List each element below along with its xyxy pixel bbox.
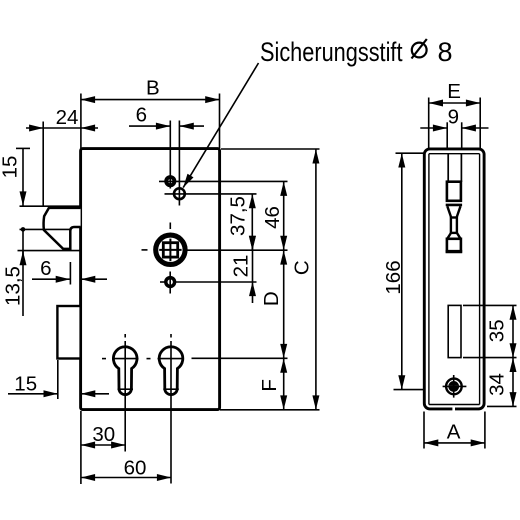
side view inner right wall [479,154,481,405]
B extension left [80,94,82,149]
30/60 extension left [80,411,82,484]
svg-text:37,5: 37,5 [227,196,250,236]
diameter symbol [412,39,427,59]
svg-text:A: A [447,420,461,443]
35/34 extension middle [463,357,517,359]
9 extension left [446,122,448,149]
dimension 13,5 [22,229,24,316]
safety pin extension vertical [178,121,180,206]
dimension E [429,102,480,104]
follower stack lower taper [447,233,460,239]
svg-text:166: 166 [382,260,405,294]
keyhole K1 top dash [124,334,126,338]
dimension A [424,442,485,444]
svg-text:9: 9 [448,105,459,128]
follower cross vertical [169,239,171,262]
screw crosshair vertical [453,375,455,398]
channel wall right [460,154,462,182]
keyhole K2 centre extension to right [192,357,288,359]
follower stack narrow box [451,218,457,233]
dimension 15 upper [22,149,24,206]
A extension right [484,412,486,449]
svg-text:35: 35 [486,319,509,342]
body top extension to right [221,148,320,150]
lock body plate [81,149,220,410]
keyhole K1 left dash [102,358,106,360]
24 extension line [42,122,44,207]
dimension 15 lower [8,393,58,395]
keyhole K2 cross horizontal [158,358,185,360]
upper pin centre line horizontal [159,180,288,182]
svg-text:13,5: 13,5 [2,266,25,306]
15 upper top tick [16,147,30,149]
dimension 166 [401,153,403,389]
svg-text:C: C [291,260,314,275]
166 extension bottom [394,389,424,391]
follower stack top box [447,182,461,201]
cap bottom notch [452,406,455,411]
dimension 30 [81,444,125,446]
latch bolt [44,208,81,249]
latch top extension line [20,205,81,207]
keyhole K2 top dash [170,334,172,338]
15 lower extension [57,360,59,399]
side view outer cap [424,149,484,409]
svg-text:8: 8 [438,37,453,67]
latch centre line [20,228,71,230]
follower nut U1 [156,235,185,264]
lower pin cross vertical [169,272,171,294]
dimension 6 lower [32,278,70,280]
side view inner top [429,153,480,155]
dimension D [283,251,285,359]
dimension 21 [252,237,254,250]
lower pin centre extension to right [176,281,257,283]
screw head inner [448,381,459,392]
svg-text:60: 60 [124,457,147,480]
35 extension top [463,304,517,306]
keyhole K2 lower arc dash [163,388,179,390]
keyhole K1 cross vertical [124,341,126,452]
safety pin hole (Sicherungsstift) [174,188,185,199]
follower stack bottom edge [446,250,463,253]
svg-text:34: 34 [486,373,509,396]
screw crosshair horizontal [443,385,467,387]
keyhole K1 cross horizontal [112,358,139,360]
A extension left [423,412,425,449]
svg-text:B: B [146,77,160,100]
svg-text:E: E [447,80,461,103]
follower stack bottom box [447,239,461,252]
svg-text:21: 21 [230,255,253,278]
dimension 60 [81,477,171,479]
follower top dash [169,223,171,230]
dimension C [315,149,317,409]
follower square hole [163,243,177,257]
svg-text:15: 15 [14,372,37,395]
leader line for Sicherungsstift [183,63,258,188]
follower centre extension to right [188,249,288,251]
34 extension bottom [487,405,517,407]
follower stack upper taper [447,206,460,217]
side view inner left wall [428,154,430,405]
dimension F [283,359,285,410]
latch bottom extension line [18,250,80,252]
svg-text:Sicherungsstift: Sicherungsstift [260,37,403,67]
dimension 34 [512,358,514,406]
E extension right [479,98,481,149]
dimension 37,5 [251,194,253,250]
dimension 46 [283,182,285,250]
svg-text:24: 24 [56,106,79,129]
keyhole K2 [159,347,183,395]
channel wall left [447,154,449,182]
body bottom extension to right [220,409,320,411]
follower cross horizontal [159,249,181,251]
svg-text:6: 6 [136,103,147,126]
upper pin extension vertical [169,121,171,189]
svg-text:D: D [260,291,283,306]
dimension 24 [26,127,43,129]
keyhole K2 mid dash [147,358,151,360]
svg-text:30: 30 [92,423,115,446]
svg-text:15: 15 [0,156,22,179]
lower pin left dash [160,281,165,283]
E extension left [428,98,430,149]
latch rear extension line [69,262,71,285]
9 extension right [461,122,463,149]
follower stack double line [446,204,462,207]
svg-text:F: F [258,379,281,392]
keyhole K1 lower arc dash [118,388,134,390]
13,5 dot [21,227,26,232]
follower left dash [142,249,148,251]
lower pin [166,278,175,287]
dimension 35 [512,306,514,358]
slot window [448,305,461,357]
dimension 6 top [129,125,170,127]
side lug [57,306,80,359]
166 extension top [396,152,424,154]
upper pin [166,177,174,185]
dimension B [81,99,219,101]
svg-text:46: 46 [261,206,284,229]
B extension right [219,94,221,149]
dimension 9 [420,127,447,129]
keyhole K1 [113,347,137,395]
screw head outer [446,379,462,395]
safety pin centre line horizontal [165,193,257,195]
keyhole K2 cross vertical [170,341,172,484]
screw cross slots [449,381,459,391]
svg-text:6: 6 [40,257,51,280]
side view inner bottom [429,404,480,406]
